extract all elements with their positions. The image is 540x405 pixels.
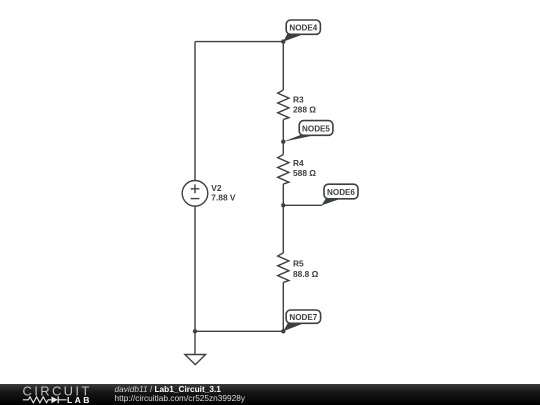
svg-text:7.88 V: 7.88 V (211, 192, 236, 202)
svg-text:NODE5: NODE5 (302, 124, 330, 133)
svg-text:NODE6: NODE6 (327, 188, 355, 197)
svg-text:LAB: LAB (67, 395, 92, 405)
svg-text:288 Ω: 288 Ω (293, 105, 316, 115)
svg-text:R4: R4 (293, 158, 304, 168)
svg-text:R3: R3 (293, 95, 304, 105)
svg-text:NODE7: NODE7 (289, 313, 317, 322)
svg-text:88.8 Ω: 88.8 Ω (293, 269, 319, 279)
svg-text:NODE4: NODE4 (289, 24, 317, 33)
svg-text:588 Ω: 588 Ω (293, 168, 316, 178)
svg-text:R5: R5 (293, 259, 304, 269)
